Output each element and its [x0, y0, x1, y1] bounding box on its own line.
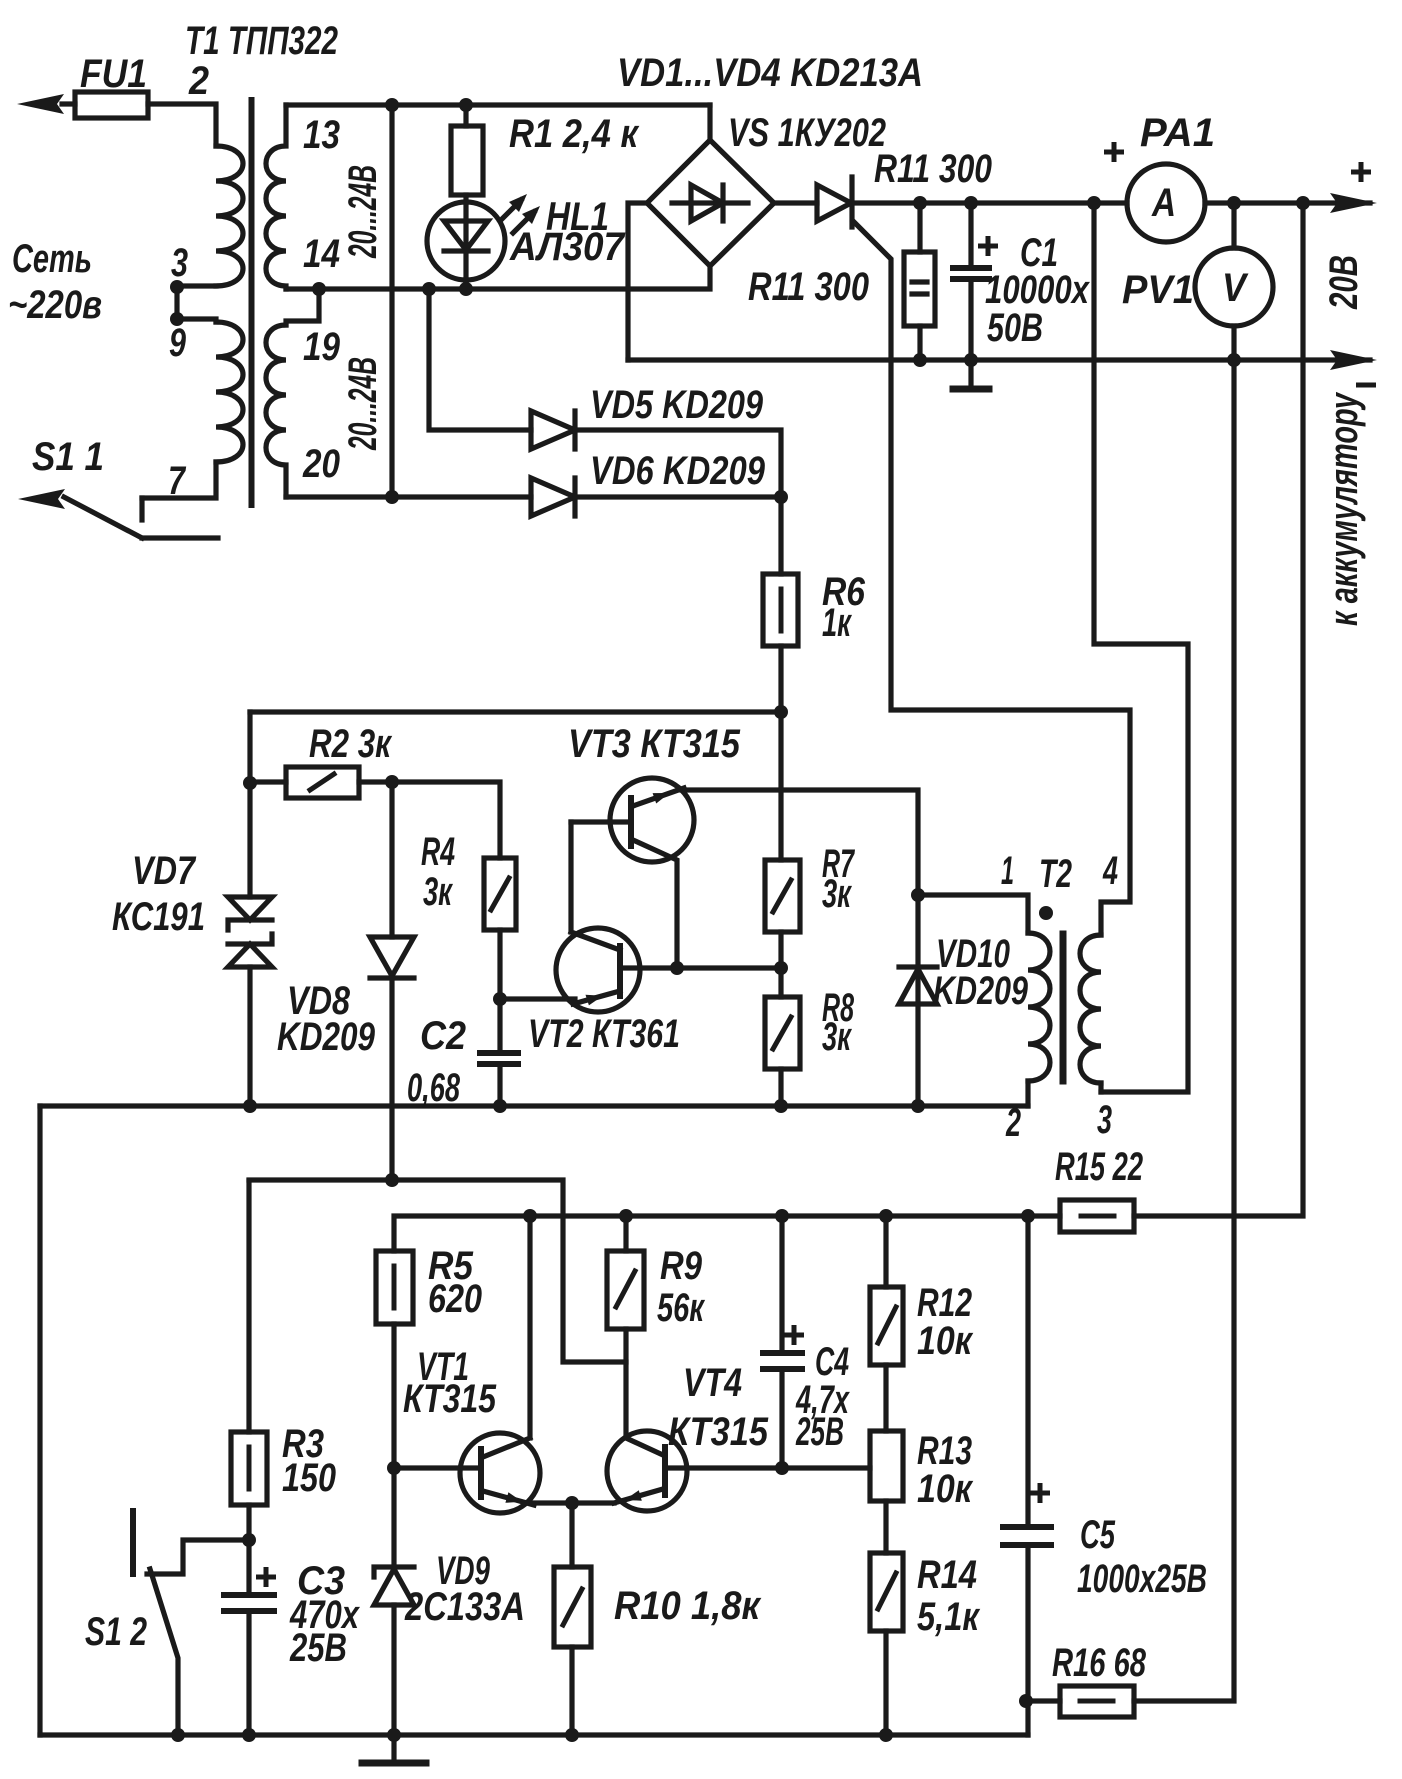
- transformer T2 core: [1060, 934, 1067, 1081]
- wire node 9 to coil2 top: [177, 319, 216, 322]
- svg-text:FU1: FU1: [80, 52, 147, 96]
- LED HL1: [427, 202, 505, 280]
- middle block bottom rail: [40, 1103, 1028, 1108]
- junction node T2 pin1 / VD10: [911, 888, 925, 902]
- transformer T1 primary winding 9-7: [216, 322, 243, 462]
- plus C4: [784, 1325, 804, 1345]
- svg-text:Т2: Т2: [1039, 852, 1072, 896]
- junction node rail B / VT1 collector: [523, 1209, 537, 1223]
- transformer T1 secondary winding 19-20: [266, 325, 286, 497]
- junction node VD6 anode line: [385, 490, 399, 504]
- junction node plus rail / PV1: [1227, 196, 1241, 210]
- junction node C5 / R16: [1019, 1694, 1033, 1708]
- junction node top rail / VD6 drop: [385, 98, 399, 112]
- diode VD6: [286, 494, 531, 499]
- svg-text:VD1...VD4 KD213A: VD1...VD4 KD213A: [617, 51, 923, 95]
- transformer T2 polarity dot: [1039, 906, 1053, 920]
- svg-text:2С133А: 2С133А: [404, 1585, 525, 1629]
- top rail AC1: [286, 102, 710, 107]
- junction node VT2 base / R7 R8: [774, 961, 788, 975]
- resistor R5: [376, 1251, 413, 1324]
- transformer T1 primary winding 2-3: [216, 146, 243, 286]
- transistor VT1: [460, 1433, 540, 1513]
- resistor R16: [1060, 1686, 1134, 1717]
- bridge rectifier VD1-VD4: [647, 140, 774, 266]
- junction node bottom rail / C3: [242, 1728, 256, 1742]
- node 9 primary tap: [170, 312, 184, 326]
- plus C3: [256, 1567, 276, 1587]
- svg-text:4: 4: [1102, 849, 1118, 893]
- svg-text:19: 19: [303, 325, 341, 369]
- wire plus rail down to R15: [1134, 203, 1303, 1216]
- zener VD7: [228, 897, 272, 920]
- svg-text:3: 3: [1097, 1098, 1112, 1142]
- junction node rail B / R9: [619, 1209, 633, 1223]
- svg-text:2: 2: [188, 59, 209, 103]
- capacitor C2: [480, 1050, 518, 1056]
- svg-text:R9: R9: [660, 1244, 703, 1288]
- junction node C4 / VT4 base: [775, 1461, 789, 1475]
- vertical drop from top rail to VD6 line: [389, 105, 394, 497]
- junction node top rail / R1: [459, 98, 473, 112]
- svg-text:R11 300: R11 300: [748, 265, 869, 309]
- node 3 primary tap: [170, 280, 184, 294]
- thyristor VS: [774, 200, 817, 205]
- junction node bottom rail / VD9: [387, 1728, 401, 1742]
- junction node mid rail / winding 19: [312, 282, 326, 296]
- svg-text:620: 620: [428, 1277, 482, 1321]
- svg-text:КС191: КС191: [112, 895, 205, 939]
- emitter bus VT1-VT4: [532, 1500, 614, 1505]
- transistor VT4: [607, 1431, 687, 1511]
- VT3 emitter wire to T2 pin1: [682, 790, 918, 895]
- svg-text:3к: 3к: [822, 872, 852, 916]
- minus output: [1356, 383, 1376, 388]
- junction node R5 / VT1 base / VD9: [387, 1461, 401, 1475]
- junction node rail B / R12: [879, 1209, 893, 1223]
- svg-text:R14: R14: [917, 1553, 977, 1597]
- resistor R9: [623, 1216, 628, 1251]
- svg-text:20: 20: [302, 442, 340, 486]
- svg-text:3к: 3к: [822, 1015, 852, 1059]
- svg-text:KD209: KD209: [933, 969, 1029, 1013]
- svg-text:10к: 10к: [917, 1467, 973, 1511]
- switch S1.1 fixed contact stub: [139, 498, 144, 520]
- plus C1: [978, 236, 998, 256]
- mains arrow bottom (S1.1): [18, 489, 65, 509]
- svg-text:C5: C5: [1080, 1513, 1116, 1557]
- svg-text:2: 2: [1005, 1101, 1021, 1145]
- resistor R8: [765, 997, 800, 1069]
- junction node bottom rail / S1.2: [171, 1728, 185, 1742]
- svg-text:R10 1,8к: R10 1,8к: [614, 1584, 762, 1628]
- node 3 / node 9 vertical link: [174, 287, 179, 319]
- resistor R3: [246, 1181, 251, 1432]
- switch S1.2 fixed contact: [130, 1511, 136, 1574]
- svg-text:R16 68: R16 68: [1052, 1641, 1147, 1685]
- capacitor C5: [1025, 1216, 1030, 1527]
- svg-text:КТ315: КТ315: [403, 1377, 497, 1421]
- left vertical to VD7: [247, 712, 252, 897]
- transformer T1 secondary winding 13-14: [266, 105, 286, 289]
- far left vertical: [37, 1106, 42, 1735]
- resistor R13 (with tap): [870, 1431, 903, 1501]
- junction node rail B / C4: [775, 1209, 789, 1223]
- junction node minus bus / C1: [964, 353, 978, 367]
- plus C5: [1030, 1483, 1050, 1503]
- junction node common rail / R8: [774, 1099, 788, 1113]
- resistor R14: [870, 1553, 903, 1631]
- svg-text:14: 14: [303, 232, 340, 276]
- junction node R2 right / VD8 / R4: [385, 775, 399, 789]
- junction node common rail / VD7: [243, 1099, 257, 1113]
- capacitor C4: [779, 1216, 784, 1353]
- svg-text:PV1: PV1: [1122, 268, 1194, 312]
- transformer T1 core: [249, 100, 255, 505]
- capacitor C3: [246, 1540, 251, 1595]
- svg-text:VD6 KD209: VD6 KD209: [590, 449, 766, 493]
- svg-text:S1 2: S1 2: [85, 1610, 147, 1654]
- ammeter PA1: [1127, 164, 1205, 242]
- svg-text:VT3 КТ315: VT3 КТ315: [568, 722, 741, 766]
- svg-text:R15 22: R15 22: [1055, 1145, 1143, 1189]
- resistor R2: [250, 779, 286, 784]
- junction node VD5/VD6 cathodes / R6: [774, 490, 788, 504]
- svg-text:VT2 КТ361: VT2 КТ361: [528, 1012, 680, 1056]
- wire C5 line to R16: [1028, 1698, 1060, 1703]
- plus output: [1351, 162, 1371, 182]
- svg-text:R1 2,4 к: R1 2,4 к: [509, 112, 639, 156]
- switch S1.1 bottom contact wire: [142, 535, 218, 540]
- junction node common rail / VD10 T2 pin2: [911, 1099, 925, 1113]
- svg-text:20...24В: 20...24В: [341, 357, 385, 451]
- lower block rail A: [249, 1180, 626, 1362]
- junction node R2 left / VD7: [243, 776, 257, 790]
- thyristor gate wire to T2 pin4: [853, 221, 1130, 935]
- svg-text:КТ315: КТ315: [668, 1410, 769, 1454]
- junction node plus rail / C1: [964, 196, 978, 210]
- svg-text:C2: C2: [420, 1014, 466, 1058]
- resistor R7: [778, 712, 783, 860]
- junction node plus rail / R11: [913, 196, 927, 210]
- capacitor C1: [968, 203, 973, 268]
- svg-text:5,1к: 5,1к: [917, 1595, 980, 1639]
- svg-text:3: 3: [171, 241, 188, 285]
- junction node rail B / R15 / C5: [1021, 1209, 1035, 1223]
- switch S1.2 wire: [147, 1540, 249, 1574]
- bottom rail: [40, 1732, 1028, 1737]
- svg-text:Т1 ТПП322: Т1 ТПП322: [185, 19, 338, 63]
- switch S1.1 blade: [64, 497, 142, 538]
- svg-text:VT4: VT4: [683, 1361, 742, 1405]
- resistor R1: [463, 105, 468, 126]
- diode VD5: [429, 289, 531, 430]
- middle block top rail: [250, 709, 781, 714]
- junction node bottom rail / R14: [879, 1728, 893, 1742]
- resistor R4: [392, 782, 500, 858]
- plus and minus marks: [256, 142, 1376, 1587]
- wire coil1 bottom to node 3: [177, 283, 216, 288]
- junction node mid rail / VD5 drop: [422, 282, 436, 296]
- svg-text:R4: R4: [421, 830, 455, 874]
- svg-text:R11 300: R11 300: [874, 147, 992, 191]
- svg-text:VD7: VD7: [132, 849, 196, 893]
- svg-text:VS 1КУ202: VS 1КУ202: [728, 111, 886, 155]
- wire plus rail to T2 pin3 (return): [1094, 203, 1188, 1092]
- svg-text:KD209: KD209: [277, 1015, 376, 1059]
- junction node mid rail / HL1: [459, 282, 473, 296]
- svg-text:к аккумулятору: к аккумулятору: [1322, 392, 1366, 626]
- resistor R15: [1060, 1200, 1134, 1232]
- svg-text:56к: 56к: [657, 1286, 705, 1330]
- wire fuse to transformer pin 2: [148, 104, 216, 146]
- svg-text:Сеть: Сеть: [12, 237, 92, 281]
- junction node control rail / R6 / R7: [774, 705, 788, 719]
- zener VD9: [391, 1468, 396, 1567]
- svg-text:1: 1: [1001, 849, 1014, 893]
- svg-text:АЛ307: АЛ307: [509, 225, 626, 269]
- junction node R4 / C2 / VT2 emitter: [493, 992, 507, 1006]
- svg-text:9: 9: [169, 321, 187, 365]
- resistor R11: [917, 203, 922, 252]
- junction node common rail / C2: [493, 1099, 507, 1113]
- svg-text:13: 13: [303, 113, 340, 157]
- svg-text:20В: 20В: [1322, 255, 1366, 310]
- junction node R3 / C3 / S1.2: [242, 1533, 256, 1547]
- wire C2 node to VT2 emitter: [500, 996, 575, 1001]
- wire pin 7 to switch S1.1: [142, 462, 216, 498]
- svg-text:PA1: PA1: [1140, 111, 1215, 155]
- transistor VT2: [556, 928, 640, 1012]
- lower block rail B: [394, 1216, 1060, 1251]
- plus PA1: [1104, 142, 1124, 162]
- svg-text:VD5 KD209: VD5 KD209: [590, 383, 764, 427]
- ground under VD9: [391, 1735, 396, 1762]
- diode VD8: [389, 782, 394, 937]
- transistor VT3: [610, 778, 694, 862]
- svg-text:A: A: [1151, 181, 1176, 225]
- wire minus bus down to R16: [1134, 360, 1234, 1701]
- svg-text:R2 3к: R2 3к: [309, 722, 392, 766]
- junction node emitters / R10: [565, 1496, 579, 1510]
- wire pin14 jog to winding 19: [286, 289, 319, 325]
- svg-text:1к: 1к: [822, 601, 852, 645]
- ground under C1: [953, 386, 989, 393]
- mid rail AC2: [286, 266, 710, 289]
- fuse FU1: [75, 92, 148, 118]
- svg-text:50В: 50В: [987, 306, 1043, 350]
- junction node plus rail / T2 return: [1087, 196, 1101, 210]
- mains arrow top: [62, 101, 75, 106]
- svg-text:10к: 10к: [917, 1319, 973, 1363]
- svg-text:1000x25В: 1000x25В: [1077, 1557, 1207, 1601]
- transformer T2 secondary 4-3: [1080, 935, 1101, 1083]
- svg-text:150: 150: [282, 1456, 336, 1500]
- junction node bottom rail / R10: [565, 1728, 579, 1742]
- minus bus: [628, 357, 1370, 362]
- svg-text:25В: 25В: [795, 1410, 844, 1454]
- svg-text:~220в: ~220в: [8, 283, 102, 327]
- svg-text:25В: 25В: [289, 1626, 347, 1670]
- bridge minus output wire: [628, 203, 647, 360]
- switch S1.2 blade: [150, 1569, 178, 1735]
- voltmeter PV1: [1231, 203, 1236, 248]
- junction node minus bus / R11: [913, 353, 927, 367]
- svg-text:V: V: [1222, 266, 1249, 310]
- svg-text:7: 7: [168, 459, 186, 503]
- junction node VT2 base / VT3 collector: [670, 961, 684, 975]
- resistor R6: [778, 497, 783, 574]
- resistor R10: [569, 1503, 574, 1567]
- junction node plus rail / R15 riser: [1296, 196, 1310, 210]
- plus rail: [851, 200, 1127, 205]
- transformer T2 primary 1-2: [918, 895, 1028, 933]
- svg-text:0,68: 0,68: [407, 1066, 461, 1110]
- LED HL1 arrows: [500, 200, 521, 221]
- junction node rail A / VD8: [385, 1173, 399, 1187]
- junction node minus bus / PV1 and R16 drop: [1227, 353, 1241, 367]
- resistor R12: [883, 1216, 888, 1287]
- svg-text:20...24В: 20...24В: [341, 165, 385, 259]
- svg-text:S1 1: S1 1: [32, 435, 104, 479]
- svg-text:3к: 3к: [423, 870, 453, 914]
- diode VD10: [915, 895, 920, 1106]
